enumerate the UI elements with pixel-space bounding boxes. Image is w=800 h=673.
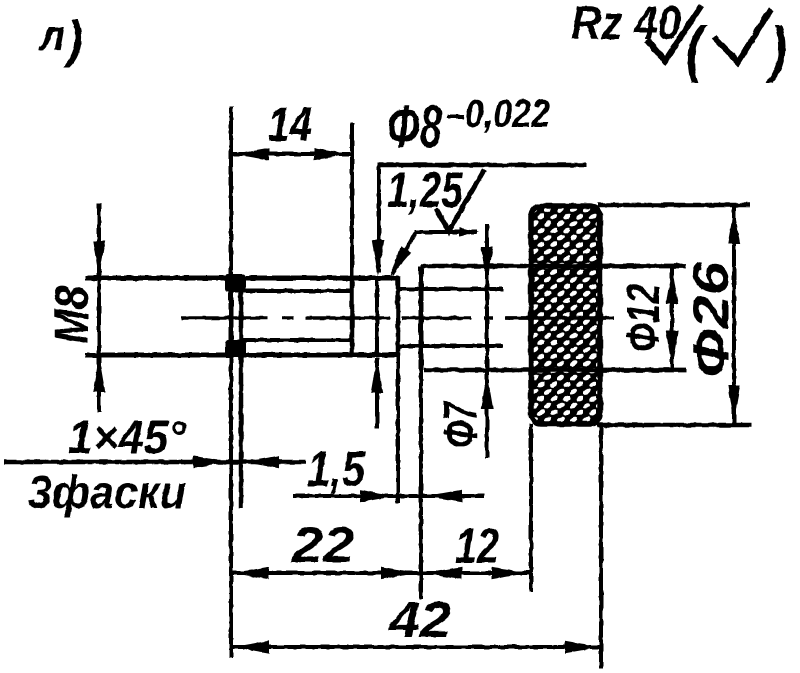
groove left edge [396, 276, 401, 356]
svg-text:12: 12 [455, 518, 499, 574]
dim Phi26 arrow down [728, 385, 740, 421]
centerline across head [506, 316, 614, 320]
dim 14 extension line left tall [229, 106, 233, 658]
groove right edge extension down [419, 370, 423, 599]
svg-text:–0,022: –0,022 [446, 92, 550, 136]
dim Phi12 arrow down [666, 331, 678, 367]
dim Phi12 arrow up [666, 268, 678, 304]
dim Phi12 dimension line [670, 266, 674, 369]
thread minor diameter top line [241, 289, 354, 293]
part top outline M8 major diameter with extension [85, 276, 399, 281]
head left face extension down [529, 424, 533, 592]
ink blob top left corner [225, 274, 246, 292]
dim 1,5 arrow pointing right at groove [360, 490, 396, 502]
dim Phi8 arrow up from below [371, 357, 383, 393]
Phi12 extension across head bottom [531, 368, 686, 373]
dim Phi8 upper arrow line [377, 165, 381, 272]
dim 42 arrow right [565, 641, 601, 653]
svg-text:л: л [38, 12, 65, 60]
leader shelf small arrow [459, 228, 479, 237]
dim Phi7 arrow up [481, 373, 493, 409]
svg-text:Φ12: Φ12 [617, 284, 669, 352]
dim 42 arrow left [233, 641, 269, 653]
dim 12 arrow left [426, 567, 462, 579]
svg-text:Φ8: Φ8 [387, 93, 442, 160]
svg-text:14: 14 [268, 99, 312, 152]
dim M8 arrow top [93, 241, 105, 277]
svg-text:1,25: 1,25 [387, 162, 464, 218]
roughness check symbol at 1,25 [436, 170, 484, 231]
chamfer dim arrow pointing left [243, 456, 279, 468]
shoulder face Phi12 left edge [419, 266, 424, 370]
leader shelf line [415, 230, 477, 234]
dim 1,5 arrow pointing left at groove [426, 490, 462, 502]
svg-text:M8: M8 [46, 286, 99, 344]
svg-text:3фаски: 3фаски [28, 466, 186, 518]
left end face of screw [229, 275, 234, 357]
dim Phi8 arrow down onto surface [372, 240, 384, 276]
dim 12 arrow right [492, 567, 528, 579]
roughness check mark under Rz40 [647, 6, 701, 61]
dim M8 arrow bottom [93, 356, 105, 392]
dim Phi26 dimension line [732, 206, 736, 423]
groove floor top Phi7 with extension [398, 287, 503, 291]
dim 22 arrow right [381, 567, 417, 579]
dim Phi26 extension bottom [597, 423, 752, 428]
dim 1,5 dimension line [293, 494, 484, 498]
roughness check mark in parentheses [714, 9, 771, 62]
Phi12 boss top line with extension [421, 264, 686, 269]
chamfer dim arrow pointing right [193, 456, 229, 468]
knurled head Phi26 outline [531, 206, 600, 424]
svg-text:1×45°: 1×45° [68, 411, 187, 463]
dim Phi26 extension top [598, 203, 750, 208]
dim Phi26 arrow up [728, 208, 740, 244]
thread runout line [375, 277, 379, 355]
dim 14 extension line right [350, 122, 354, 277]
dim M8 dimension line [97, 204, 101, 412]
centerline axis [181, 316, 614, 320]
Phi12 boss bottom line with extension [424, 368, 686, 373]
dim 14 arrow right [314, 148, 350, 160]
svg-text:42: 42 [388, 592, 451, 648]
svg-text:Rz 40: Rz 40 [571, 0, 681, 49]
svg-text:Φ26: Φ26 [683, 261, 739, 378]
svg-text:22: 22 [291, 517, 354, 573]
Phi12 extension across head top [531, 264, 686, 269]
leader line to groove [392, 232, 416, 274]
dim Phi8 underline dimension line [378, 163, 586, 168]
head right face extension down [599, 424, 603, 668]
groove floor bottom Phi7 with extension [398, 344, 503, 348]
leader arrowhead at groove corner [390, 246, 411, 277]
dim 22 and 12 dimension line [231, 571, 530, 575]
dim 14 arrow left [233, 148, 269, 160]
dim Phi8 lower arrow line [375, 358, 379, 428]
thread end line [350, 277, 355, 356]
part bottom outline M8 major diameter with extension [85, 353, 397, 358]
dim 14 dimension line [231, 152, 352, 156]
dim Phi7 arrow down [481, 247, 493, 283]
dim 22 arrow left [233, 567, 269, 579]
svg-text:Φ7: Φ7 [435, 400, 488, 448]
thread minor diameter bottom line [241, 338, 354, 342]
svg-text:1,5: 1,5 [307, 441, 366, 497]
groove left edge extension down [396, 356, 400, 503]
dim 42 dimension line [231, 645, 603, 649]
chamfer note dimension line [4, 460, 306, 465]
ink blob bottom left corner [225, 340, 246, 357]
dim Phi7 dimension line [485, 224, 489, 458]
chamfer line at thread start [239, 278, 244, 508]
